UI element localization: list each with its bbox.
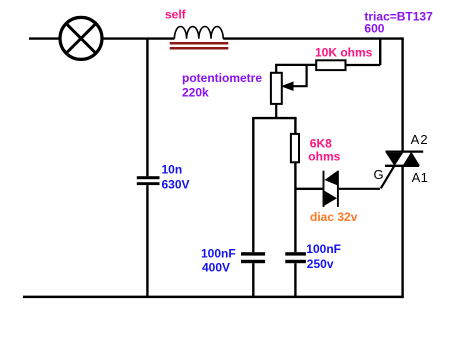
wire: diac to gate — [339, 188, 380, 190]
triac Q1 lower bar — [385, 165, 419, 167]
wire: 10K resistor branch vertical — [379, 39, 381, 65]
wire: inductor to top-right corner — [223, 37, 404, 39]
svg-text:A2: A2 — [411, 132, 428, 147]
svg-text:self: self — [165, 8, 187, 22]
wire: node to diac — [295, 188, 322, 190]
potentiometer wiper arrow — [281, 81, 294, 91]
diac D1 lower triangle — [324, 191, 337, 206]
triac Q1 left triangle — [386, 153, 403, 166]
wire: left column lower — [146, 185, 148, 297]
inductor core line 1 — [170, 42, 229, 45]
wire: right cap branch lower — [294, 263, 296, 297]
capacitor C1 10n plate 2 — [137, 182, 160, 185]
wire: 6K8 to right cap branch — [294, 162, 296, 252]
wire: pot top lead to 10K left lead — [276, 65, 316, 73]
diac D1 left bar — [323, 171, 325, 207]
potentiometer P1 body — [271, 73, 282, 104]
capacitor C2 100nF 400V plate 1 — [241, 252, 265, 255]
svg-text:220k: 220k — [182, 86, 209, 100]
svg-text:A1: A1 — [412, 170, 428, 185]
wire: left cap branch lower — [252, 263, 254, 297]
wire: top-left supply lead — [29, 37, 60, 39]
svg-text:400V: 400V — [202, 261, 230, 275]
svg-text:10K ohms: 10K ohms — [315, 45, 373, 59]
resistor R2 6K8 — [291, 134, 299, 162]
svg-text:potentiometre: potentiometre — [182, 71, 262, 85]
wire: gate diagonal — [381, 165, 395, 188]
svg-text:630V: 630V — [162, 177, 190, 191]
wire: pot bottom lead — [275, 104, 277, 118]
diac D1 right bar — [337, 171, 339, 207]
svg-text:250v: 250v — [307, 257, 334, 271]
svg-text:diac 32v: diac 32v — [310, 210, 358, 224]
wire: pot wiper branch — [293, 65, 307, 86]
capacitor C2 100nF 400V plate 2 — [241, 260, 265, 263]
svg-text:100nF: 100nF — [201, 247, 236, 261]
capacitor C1 10n plate 1 — [137, 176, 160, 179]
svg-text:100nF: 100nF — [306, 242, 341, 256]
wire: left column upper — [146, 39, 148, 177]
svg-text:ohms: ohms — [308, 149, 340, 163]
wire: right vertical (A2 side) — [401, 39, 403, 152]
svg-text:10n: 10n — [162, 163, 183, 177]
wire: bottom supply rail — [23, 296, 404, 299]
wire: lamp to inductor — [102, 37, 174, 39]
wire: 10K resistor right lead — [346, 64, 381, 66]
capacitor C3 100nF 250v plate 2 — [285, 260, 306, 263]
svg-text:600: 600 — [364, 22, 384, 36]
wire: right vertical (A1 side) — [401, 166, 403, 297]
wire: 6K8 branch upper — [294, 118, 296, 134]
inductor self (coil) — [174, 26, 223, 38]
inductor core line 2 — [170, 47, 229, 50]
svg-text:G: G — [374, 167, 384, 182]
wire: mid horizontal bus — [252, 117, 297, 119]
diac D1 upper triangle — [325, 171, 338, 185]
lamp L1 (circle with X) — [60, 17, 102, 59]
resistor R1 10K — [316, 60, 345, 70]
wire: left cap branch upper — [252, 118, 254, 252]
triac Q1 upper bar — [386, 150, 424, 152]
capacitor C3 100nF 250v plate 1 — [285, 252, 306, 255]
triac Q1 right triangle — [403, 152, 420, 166]
